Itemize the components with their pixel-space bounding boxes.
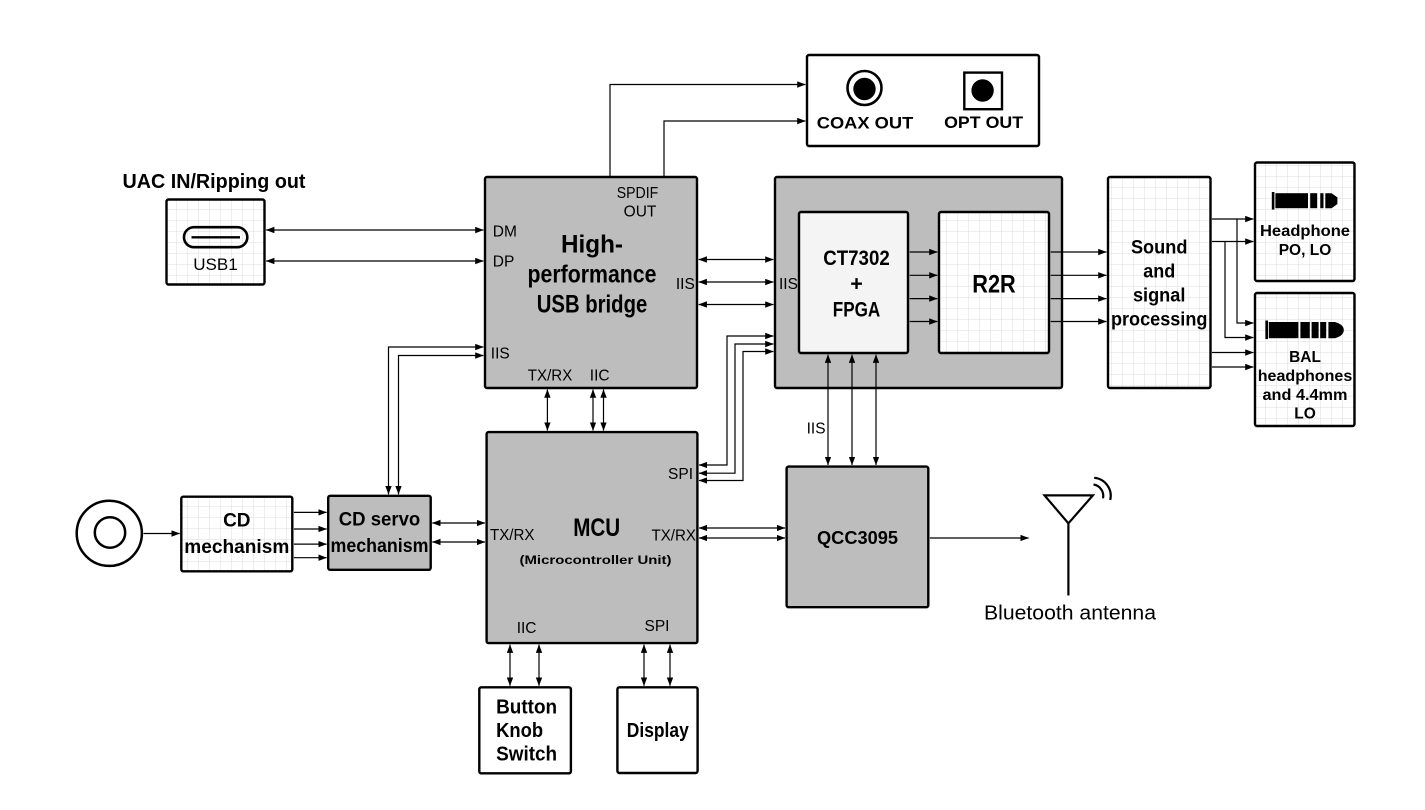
svg-text:(Microcontroller Unit): (Microcontroller Unit) [520, 553, 672, 567]
svg-text:OPT OUT: OPT OUT [944, 113, 1024, 132]
block Display [617, 687, 697, 773]
svg-text:Bluetooth antenna: Bluetooth antenna [984, 602, 1157, 625]
wire IIS bridge-DAC 2 [699, 281, 774, 283]
wire TX/RX MCU-QCC 2 [699, 537, 785, 539]
CD disc icon [77, 501, 142, 566]
svg-text:FPGA: FPGA [833, 298, 881, 322]
svg-text:Display: Display [627, 720, 690, 742]
block COAX/OPT OUT [807, 55, 1039, 146]
wire branch to BAL 1 [1237, 219, 1253, 323]
wire IIC MCU-Button 2 [538, 645, 540, 686]
block Headphone PO LO [1255, 163, 1355, 282]
svg-text:QCC3095: QCC3095 [817, 528, 898, 548]
svg-text:DM: DM [493, 224, 517, 241]
OPT OUT connector icon [964, 73, 1002, 110]
wire SPDIF OUT to OPT [664, 121, 805, 176]
wire SPI MCU-DAC 2 [699, 344, 773, 473]
wire SPI MCU-DAC 3 [699, 352, 773, 481]
svg-text:+: + [850, 272, 863, 296]
svg-text:UAC IN/Ripping out: UAC IN/Ripping out [123, 171, 306, 193]
svg-text:mechanism: mechanism [331, 536, 429, 557]
svg-text:OUT: OUT [624, 204, 657, 221]
wire TX/RX bridge-MCU [546, 390, 548, 431]
svg-text:IIS: IIS [676, 276, 695, 293]
wire CD mechanism to CD servo y=529.0 [294, 528, 327, 530]
wire CT7302 to R2R y=298.6 [910, 298, 938, 300]
wire IIS bridge to CD servo 2 [399, 356, 484, 495]
wire Sound to BAL 3 [1212, 352, 1254, 354]
wire CD mechanism to CD servo y=544.1 [294, 543, 327, 545]
block MCU [487, 432, 698, 643]
svg-text:and: and [1143, 262, 1175, 283]
wire IIC bridge-MCU 2 [603, 390, 605, 431]
COAX OUT connector icon [848, 71, 882, 105]
wire R2R to Sound processing y=321.5 [1051, 321, 1107, 323]
wire branch to BAL 2 [1225, 242, 1253, 338]
svg-text:mechanism: mechanism [184, 537, 289, 558]
USB-C connector icon [184, 227, 247, 247]
wire IIS QCC3095 to CT7302 x=852 [851, 355, 853, 465]
wire CT7302 to R2R y=275.3 [910, 274, 938, 276]
wire IIS bridge to CD servo 1 [389, 347, 484, 494]
svg-text:Button: Button [496, 697, 557, 719]
svg-text:IIC: IIC [590, 368, 610, 385]
svg-text:MCU: MCU [573, 514, 620, 542]
wire TX/RX CD servo-MCU 2 [432, 541, 485, 543]
block R2R [939, 212, 1049, 353]
svg-text:COAX OUT: COAX OUT [817, 114, 914, 133]
svg-text:High-: High- [561, 231, 623, 259]
block USB1 [167, 200, 265, 285]
svg-text:USB bridge: USB bridge [537, 290, 648, 318]
block Sound and signal processing [1108, 177, 1211, 388]
svg-text:TX/RX: TX/RX [490, 527, 535, 544]
headphone plug icon (PO, LO) [1272, 192, 1338, 210]
svg-text:SPI: SPI [668, 466, 693, 483]
balanced 4.4mm plug icon [1265, 321, 1343, 340]
wire IIS bridge-DAC 3 [699, 304, 774, 306]
block High-performance USB bridge [485, 177, 697, 388]
wire IIS QCC3095 to CT7302 x=828 [827, 355, 829, 465]
svg-text:Sound: Sound [1131, 238, 1188, 259]
wire Sound to Headphone 1 [1212, 218, 1254, 220]
block CD servo mechanism [328, 496, 431, 570]
block BAL headphones [1255, 293, 1355, 426]
svg-text:BAL: BAL [1289, 349, 1321, 366]
svg-text:TX/RX: TX/RX [528, 368, 573, 385]
wire SPI MCU-Display 2 [669, 645, 671, 686]
wire CD mechanism to CD servo y=557.7 [294, 557, 327, 559]
svg-text:IIS: IIS [491, 346, 510, 363]
svg-text:CD servo: CD servo [339, 510, 421, 531]
svg-text:SPDIF: SPDIF [617, 185, 659, 202]
wire DP USB1-bridge [266, 260, 483, 262]
block QCC3095 [787, 467, 929, 608]
svg-text:LO: LO [1294, 406, 1316, 423]
svg-text:IIS: IIS [807, 421, 826, 438]
svg-text:performance: performance [528, 261, 657, 289]
block CT7302+FPGA [799, 212, 908, 353]
block DAC section (CT7302+FPGA / R2R) [775, 177, 1062, 388]
wire CT7302 to R2R y=321.5 [910, 321, 938, 323]
block CD mechanism [181, 497, 292, 572]
wire IIS bridge-DAC 1 [699, 259, 774, 261]
svg-text:R2R: R2R [972, 271, 1016, 299]
svg-text:IIC: IIC [517, 620, 537, 637]
wire SPI MCU-DAC 1 [699, 336, 773, 465]
svg-text:PO, LO: PO, LO [1279, 242, 1332, 259]
wire R2R to Sound processing y=252.0 [1051, 251, 1107, 253]
wire DM USB1-bridge [266, 229, 483, 231]
svg-text:headphones: headphones [1258, 368, 1353, 385]
svg-text:USB1: USB1 [193, 255, 238, 274]
wire QCC3095 to antenna [930, 537, 1029, 539]
wire CT7302 to R2R y=252.0 [910, 251, 938, 253]
svg-text:Headphone: Headphone [1260, 223, 1350, 240]
wire IIC MCU-Button 1 [509, 645, 511, 686]
Bluetooth antenna symbol [1045, 478, 1111, 596]
svg-text:signal: signal [1133, 286, 1186, 307]
svg-text:Switch: Switch [496, 744, 557, 766]
wire IIS QCC3095 to CT7302 x=876 [875, 355, 877, 465]
wire TX/RX CD servo-MCU 1 [432, 522, 485, 524]
svg-text:CD: CD [223, 511, 250, 532]
svg-text:CT7302: CT7302 [823, 246, 890, 270]
svg-text:Knob: Knob [496, 720, 543, 742]
wire SPDIF OUT to COAX [610, 85, 805, 177]
svg-text:IIS: IIS [779, 276, 798, 293]
wire IIC bridge-MCU 1 [592, 390, 594, 431]
svg-text:TX/RX: TX/RX [652, 528, 697, 545]
svg-text:and 4.4mm: and 4.4mm [1263, 387, 1348, 404]
svg-text:processing: processing [1111, 310, 1208, 331]
wire SPI MCU-Display 1 [643, 645, 645, 686]
wire R2R to Sound processing y=275.3 [1051, 274, 1107, 276]
wire Sound to Headphone 2 [1212, 241, 1254, 243]
block Button Knob Switch [479, 687, 571, 773]
wire TX/RX MCU-QCC 1 [699, 527, 785, 529]
wire CD mechanism to CD servo y=512.4 [294, 511, 327, 513]
wire Sound to BAL 4 [1212, 366, 1254, 368]
wire CD disc to CD mechanism [144, 533, 180, 535]
svg-text:SPI: SPI [645, 618, 670, 635]
wire R2R to Sound processing y=298.6 [1051, 298, 1107, 300]
svg-text:DP: DP [493, 254, 515, 271]
